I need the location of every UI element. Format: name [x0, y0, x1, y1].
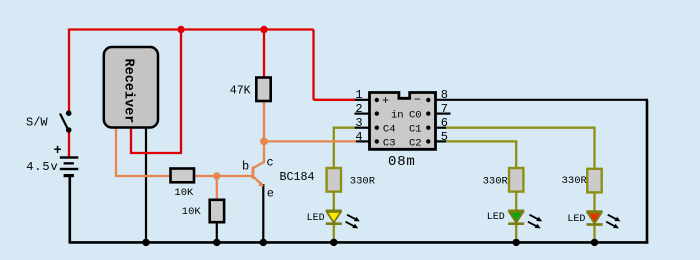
anode bar — [587, 210, 603, 213]
wire: red to 47K resistor — [263, 30, 265, 79]
pin dot 1 — [375, 98, 379, 102]
wire: red vertical x181 to receiver loop — [180, 30, 182, 154]
svg-text:330R: 330R — [350, 175, 376, 187]
pin dot 5 — [426, 139, 430, 143]
wire: battery negative to ground rail — [69, 177, 72, 244]
junction dot red x181 — [177, 26, 184, 33]
svg-text:+: + — [53, 144, 61, 159]
svg-text:c: c — [267, 156, 274, 170]
svg-text:LED: LED — [487, 212, 505, 223]
svg-text:LED: LED — [307, 213, 325, 224]
svg-text:8: 8 — [441, 88, 448, 102]
anode bar — [508, 209, 524, 212]
pin 3 stub — [355, 127, 370, 129]
pin 7 stub — [436, 112, 451, 114]
pin dot 6 — [426, 126, 430, 130]
svg-text:08m: 08m — [388, 154, 416, 170]
pin 5 stub — [436, 140, 448, 142]
wire: olive pin 5 to LED2 chain — [446, 141, 516, 211]
anode bar — [326, 209, 342, 212]
junction dot ground LED3 — [591, 239, 598, 246]
wire: olive pin 3 to LED1 chain — [334, 128, 355, 211]
svg-text:4.5v: 4.5v — [26, 160, 58, 174]
resistor R4 330R (LED1) — [327, 168, 341, 192]
switch S/W — [60, 110, 71, 132]
wire: red receiver pin vertical — [130, 127, 132, 154]
switch terminal bottom — [66, 127, 72, 133]
wire: emitter to ground — [262, 184, 264, 242]
junction dot ground LED2 — [513, 239, 520, 246]
svg-text:LED: LED — [567, 214, 585, 225]
pin 4 stub — [356, 140, 370, 142]
wire: pin8 to right vertical — [436, 99, 649, 101]
plate short bottom — [64, 174, 74, 177]
resistor R1 10K horizontal — [171, 169, 195, 183]
pin 2 stub — [355, 112, 370, 114]
chip body with notch — [370, 93, 436, 150]
wire: red switch to battery — [68, 131, 70, 158]
transistor Q1 BC184 — [253, 141, 264, 186]
triangle — [588, 213, 602, 224]
pin dot 4 — [375, 139, 379, 143]
svg-text:C1: C1 — [409, 124, 422, 136]
junction dot red x264 — [260, 26, 267, 33]
svg-text:in: in — [391, 110, 404, 122]
junction dot orange base node — [213, 172, 220, 179]
svg-text:BC184: BC184 — [280, 170, 315, 184]
triangle — [327, 212, 341, 223]
svg-text:1: 1 — [355, 88, 362, 102]
svg-text:C4: C4 — [383, 124, 396, 136]
junction dot orange collector node — [260, 138, 268, 146]
svg-text:S/W: S/W — [26, 116, 48, 130]
wire: olive LED2 to ground — [515, 223, 517, 242]
svg-text:10K: 10K — [174, 187, 194, 199]
wire: ground rail bottom — [69, 241, 648, 244]
wire: red left vertical to switch — [68, 29, 70, 113]
resistor R5 330R (LED2) — [509, 168, 523, 192]
wire: olive LED3 to ground — [593, 223, 595, 242]
svg-text:C2: C2 — [409, 137, 422, 149]
wire: orange 47K to collector node — [263, 100, 265, 141]
junction dot ground LED1 — [330, 239, 337, 246]
pin dot 8 — [426, 98, 430, 102]
wire: red top power rail — [69, 28, 314, 30]
battery B1 4.5v — [60, 156, 79, 177]
light arrow 1 — [347, 215, 356, 220]
junction dot ground receiver — [142, 239, 149, 246]
pin 6 stub — [436, 127, 448, 129]
plate long top — [60, 156, 79, 158]
emitter wire — [254, 177, 264, 186]
cathode bar — [508, 222, 524, 225]
resistor R2 10K vertical — [210, 200, 224, 222]
light arrow 1 — [608, 215, 617, 220]
light arrow 1 — [529, 215, 538, 220]
wire: orange node to pin 4 — [264, 140, 356, 142]
switch terminal top — [66, 110, 72, 116]
triangle — [509, 212, 523, 223]
wire: receiver middle pin to ground — [145, 127, 147, 242]
svg-text:330R: 330R — [483, 176, 509, 188]
wire: orange base node to 10K — [216, 176, 218, 200]
light arrow 2 — [346, 222, 355, 227]
resistor R6 330R (LED3) — [587, 169, 601, 193]
light arrow 2 — [528, 222, 537, 227]
collector wire — [254, 141, 264, 168]
svg-text:−: − — [414, 93, 421, 107]
pin 1 stub — [355, 99, 370, 101]
svg-text:47K: 47K — [230, 85, 251, 98]
cathode bar — [326, 222, 342, 225]
wire: red receiver loop horizontal — [130, 152, 182, 154]
cathode bar — [587, 223, 603, 226]
wire: olive LED1 to ground — [333, 223, 335, 242]
light arrow 2 — [606, 222, 615, 227]
wire: red right vertical x313 — [312, 30, 314, 100]
switch lever — [60, 114, 68, 131]
IC U1 08m — [370, 93, 436, 150]
svg-text:5: 5 — [441, 130, 448, 144]
plate short — [64, 162, 74, 164]
plate long — [60, 168, 79, 170]
LED D2 green — [508, 211, 542, 229]
wire: olive pin 6 to LED3 chain — [446, 128, 595, 211]
pin dot 7 — [426, 111, 430, 115]
receiver module — [104, 47, 158, 128]
wire: 10K vertical resistor to ground — [216, 221, 218, 242]
svg-text:330R: 330R — [562, 175, 588, 187]
svg-text:e: e — [267, 187, 274, 201]
svg-text:10K: 10K — [182, 206, 202, 218]
svg-text:3: 3 — [355, 116, 362, 130]
svg-text:6: 6 — [441, 116, 448, 130]
svg-text:b: b — [242, 160, 249, 174]
LED D3 red — [587, 212, 621, 229]
emitter arrowhead — [258, 181, 264, 186]
svg-text:4: 4 — [355, 130, 362, 144]
svg-text:+: + — [382, 95, 389, 108]
junction dot ground emitter — [260, 239, 267, 246]
resistor R3 47K — [256, 78, 270, 102]
svg-text:7: 7 — [441, 102, 448, 116]
LED D1 yellow — [326, 211, 360, 229]
svg-text:C3: C3 — [383, 137, 396, 149]
svg-text:C0: C0 — [409, 110, 422, 122]
junction dot ground 10K — [213, 239, 220, 246]
wire: red horizontal to pin 1 — [314, 99, 356, 101]
pin dot 3 — [375, 126, 379, 130]
wire: right vertical to ground — [646, 100, 649, 244]
transistor bar — [252, 167, 255, 179]
wire: orange receiver pin to base node — [116, 127, 252, 176]
pin dot 2 — [375, 111, 379, 115]
svg-text:Receiver: Receiver — [121, 59, 136, 124]
svg-text:2: 2 — [355, 102, 362, 116]
